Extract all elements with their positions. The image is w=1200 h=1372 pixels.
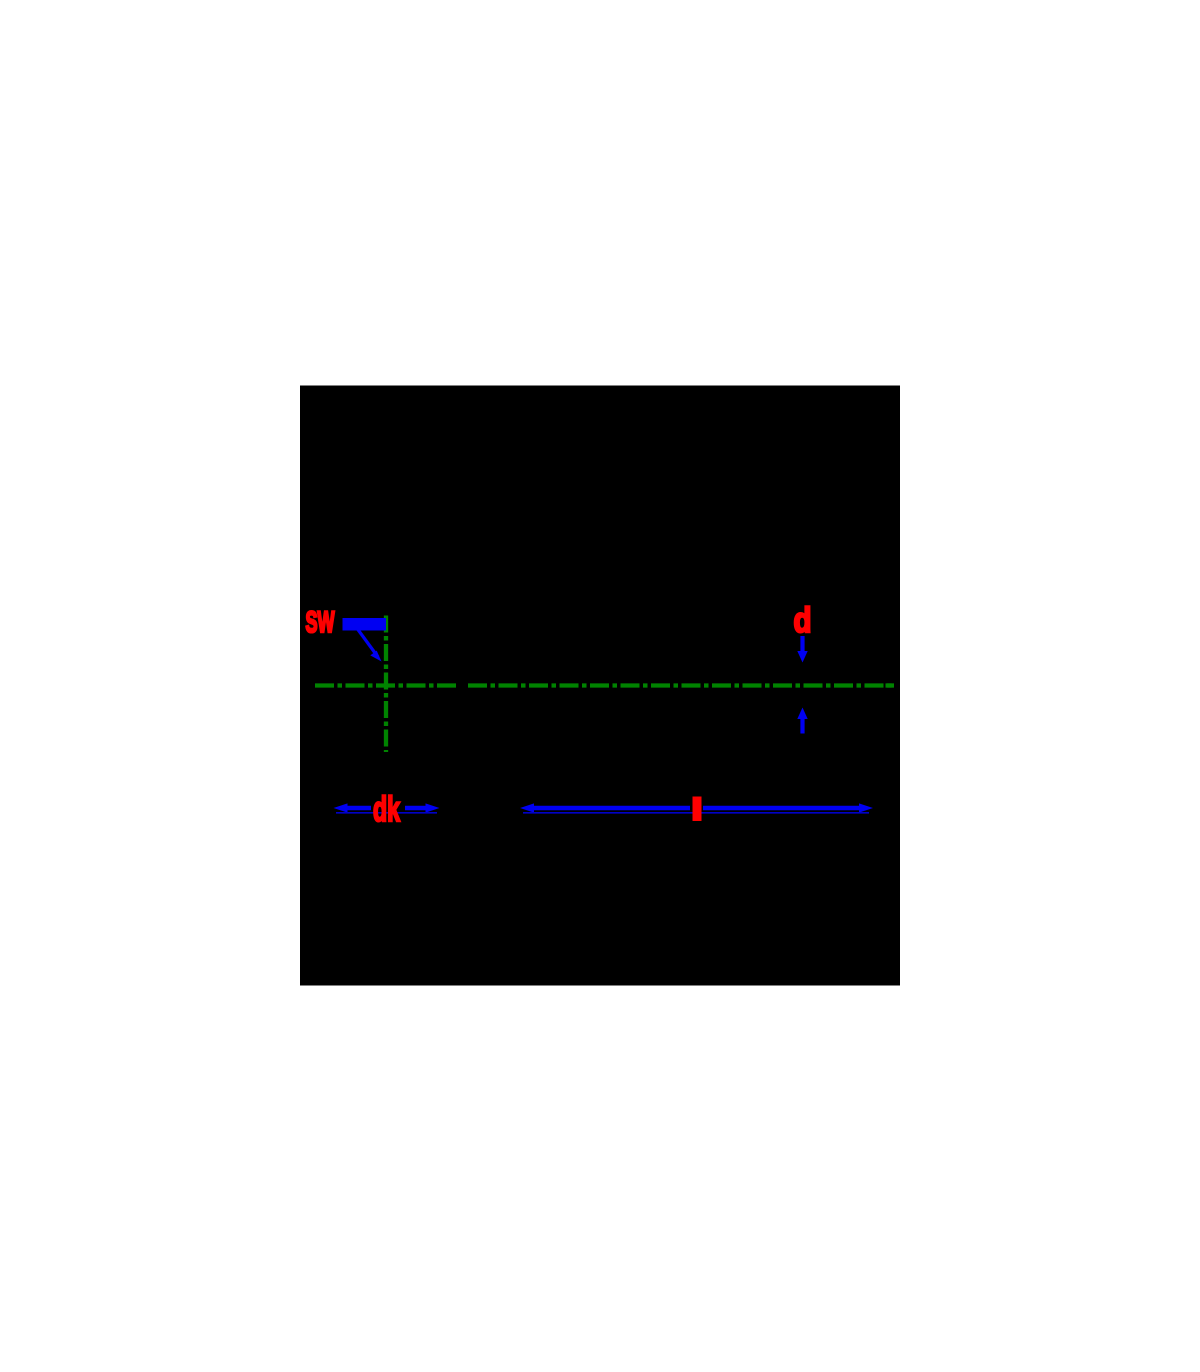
dimension line l xyxy=(520,803,534,812)
centerline horizontal right segment end dash xyxy=(886,683,895,687)
svg-text:SW: SW xyxy=(306,606,335,639)
centerline vertical (front view) xyxy=(384,616,388,753)
leader SW diagonal shaft xyxy=(358,629,379,657)
dimension line dk xyxy=(334,803,348,812)
leader SW horizontal bar xyxy=(343,618,387,631)
svg-text:dk: dk xyxy=(373,790,400,829)
svg-text:d: d xyxy=(794,601,812,640)
dimension d upper arrow (points down) xyxy=(800,636,804,652)
black product image panel xyxy=(300,386,900,986)
centerline horizontal left segment (front view) xyxy=(315,683,457,687)
dimension d lower arrow (points up) xyxy=(797,708,807,720)
label l xyxy=(693,797,702,822)
leader SW arrowhead xyxy=(370,651,381,662)
centerline horizontal right segment (side view axis) xyxy=(468,683,894,687)
